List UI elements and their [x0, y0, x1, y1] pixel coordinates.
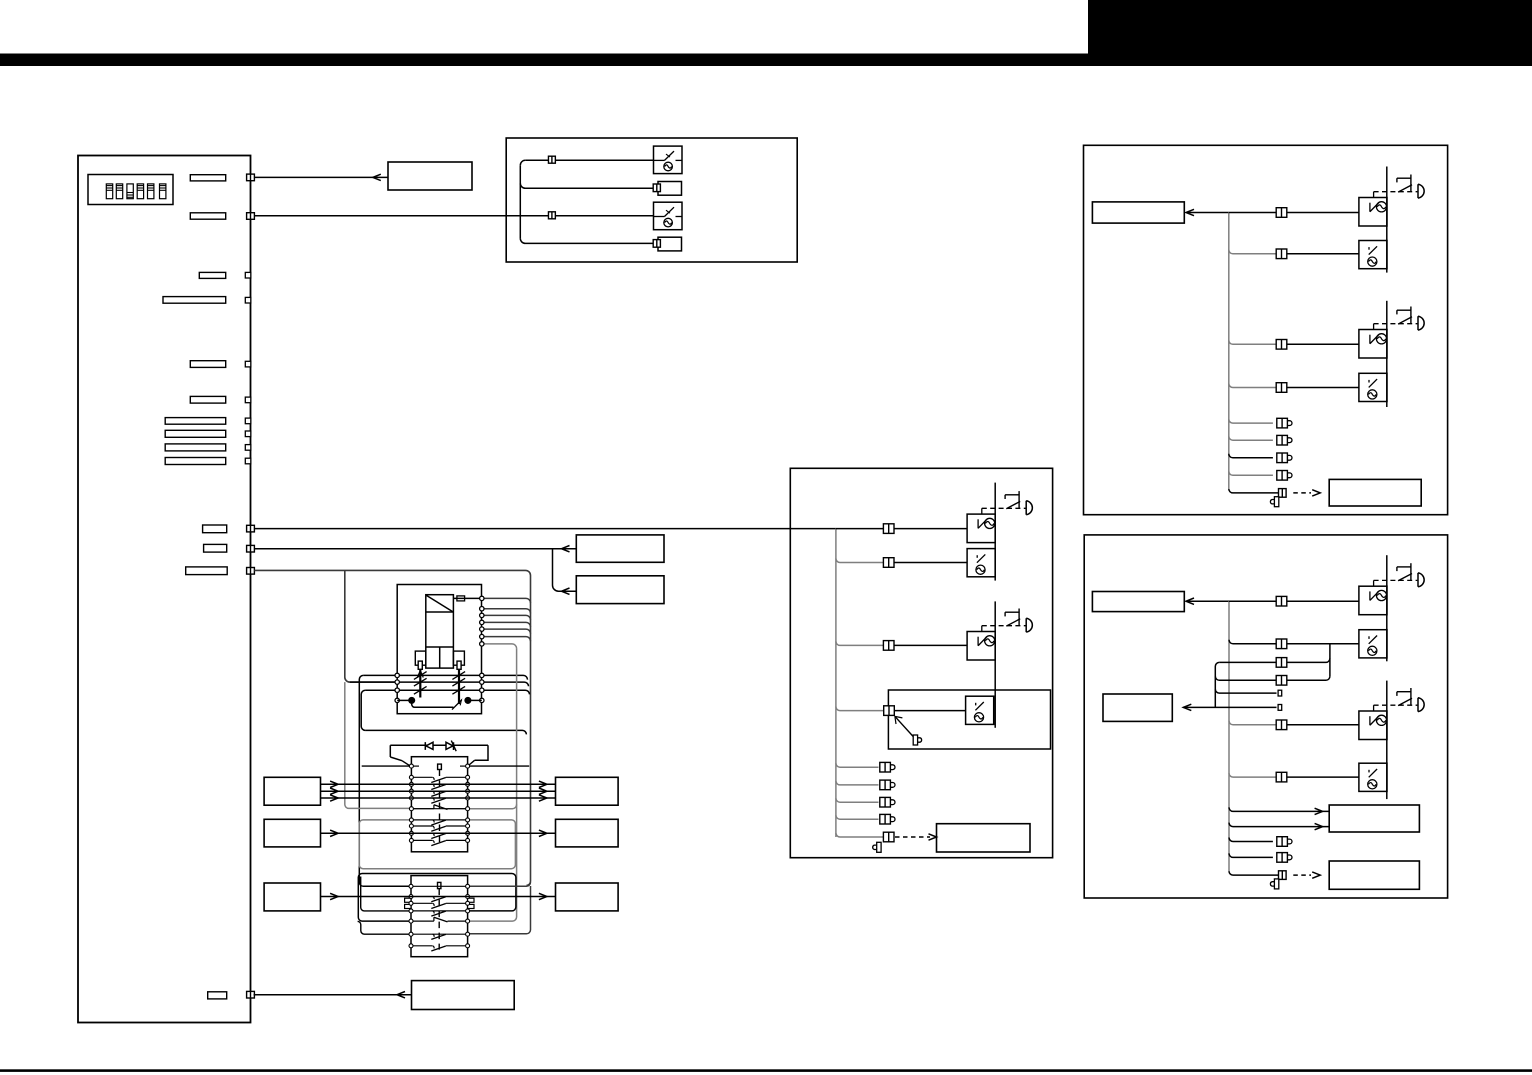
footer rule	[0, 1069, 1532, 1072]
bank1 row stubs top	[411, 765, 467, 767]
rb bus (gray)	[1228, 601, 1230, 871]
connector	[1276, 658, 1287, 668]
PCB edge pin 3	[245, 272, 251, 278]
DIP switch element 3	[127, 184, 133, 199]
capped connector stub	[880, 762, 895, 772]
diode feed diagonal right	[468, 760, 474, 765]
flow arrow	[330, 781, 338, 787]
PCB edge pin 6	[245, 397, 251, 403]
resistor on relay contact feed	[457, 596, 465, 601]
relay pin node left	[395, 698, 399, 702]
flow arrow	[562, 546, 570, 552]
rb branch1 wire	[1229, 600, 1359, 602]
loop row at 730	[365, 730, 526, 734]
PCB edge pin 13	[247, 568, 255, 575]
branch 4 wire	[520, 238, 658, 243]
compressor C4	[1359, 373, 1387, 401]
mid-right branch3 wire	[894, 644, 967, 646]
relay contact feed wire	[453, 597, 481, 599]
PCB connector bar 4	[163, 297, 226, 304]
relay coil terminal pin right	[457, 661, 461, 669]
thermal fuse F1	[658, 182, 682, 196]
door switch symbol	[1005, 609, 1020, 627]
PCB edge pin 2	[247, 213, 255, 220]
rt dashed branch	[1229, 489, 1279, 493]
callout label box (bottom)	[412, 981, 515, 1010]
program wire 2	[321, 790, 556, 792]
PCB edge pin 5	[245, 361, 251, 367]
wire pin1 to callout	[254, 176, 388, 178]
evap fan F1 with lamp	[1359, 586, 1387, 615]
diode loop line	[390, 745, 488, 760]
right-bottom callout label box 3	[1329, 805, 1419, 832]
relay coil terminal pin left	[418, 661, 422, 669]
lamp	[1418, 316, 1424, 330]
lamp	[1026, 618, 1032, 632]
evap fan F2	[1359, 630, 1387, 658]
gray loop: row 820 around bank bottom (row 868)	[359, 820, 515, 869]
door switch linkage (dashed)	[982, 626, 1026, 632]
bank1 switch contacts	[411, 777, 467, 845]
diode D1 (points left)	[425, 742, 433, 750]
lamp	[1418, 698, 1424, 712]
rt stub wire y440	[1229, 436, 1273, 440]
harness loop A vertical (gray)	[468, 648, 517, 921]
PCB connector bar 9	[165, 444, 226, 451]
row 910 left extension	[361, 877, 411, 911]
capped connector stub	[1277, 837, 1292, 847]
transfer blade	[452, 700, 462, 710]
bank2 contact nodes	[409, 884, 470, 948]
compressor C2	[1359, 241, 1387, 269]
capped connector stub	[1277, 418, 1292, 428]
door switch linkage (dashed)	[1374, 192, 1418, 198]
rb branch3 (gray feed)	[1229, 721, 1276, 725]
wire pin14 to callout	[254, 994, 412, 996]
row 934 left link	[358, 921, 411, 934]
service arrow to connector	[896, 717, 915, 737]
connector	[1276, 208, 1287, 218]
relay armature left pin line	[419, 669, 421, 697]
rt stub wire y475	[1229, 471, 1273, 475]
right-top callout label box	[1092, 202, 1184, 223]
PCB connector bar 8	[165, 430, 226, 437]
PCB edge pin 14	[247, 991, 255, 998]
left loop vertical from row3	[361, 690, 365, 730]
relay contact row 2	[350, 682, 529, 686]
door switch symbol	[1005, 491, 1020, 509]
relay output wires merging to harness	[482, 598, 531, 603]
DIP switch element 2	[116, 184, 122, 199]
disconnected plug	[1270, 497, 1278, 507]
bus vertical	[519, 165, 521, 238]
rb feed wire	[1187, 600, 1230, 602]
connector	[883, 832, 894, 842]
PCB connector bar 1	[190, 175, 225, 181]
callout label box right 1	[556, 777, 619, 805]
rt branch4 wire	[1287, 387, 1359, 389]
rt stub wire y457	[1229, 454, 1273, 458]
right-bottom unit enclosure	[1084, 535, 1447, 898]
capped connector stub	[880, 814, 895, 824]
rt group1 common	[1386, 167, 1388, 273]
mid-right callout label box	[937, 824, 1031, 852]
wire pin13 supply loop top	[254, 570, 530, 885]
group1 common line	[994, 483, 996, 581]
door switch symbol	[1397, 563, 1412, 581]
rb stub row 2 / wire to callout2	[1183, 706, 1276, 708]
relay enclosure box	[397, 585, 481, 714]
rb branch2b wire	[1219, 658, 1330, 662]
PCB connector bar 13	[186, 567, 228, 575]
capped connector stub	[1277, 453, 1292, 463]
evap fan F4	[1359, 763, 1387, 791]
lamp	[1418, 573, 1424, 587]
capped connector stub	[880, 780, 895, 790]
bank1 actuator dashed line	[439, 770, 441, 846]
branch 1 wire	[525, 159, 653, 161]
rb stub row 1	[1215, 689, 1276, 693]
callout label box left 2	[264, 819, 320, 847]
DIP switch element 4	[137, 184, 143, 199]
lamp	[1418, 184, 1424, 198]
connector pin	[1278, 705, 1282, 711]
relay pin node right	[480, 688, 484, 692]
heater/defrost unit enclosure	[506, 138, 797, 262]
rt branch2 (gray feed)	[1229, 250, 1276, 254]
program wire 1 exit arrow	[539, 781, 547, 787]
diode D2 slash	[451, 741, 456, 752]
thermal fuse F2	[658, 237, 682, 251]
callout label box (interior lamp 2)	[576, 576, 664, 604]
door switch linkage (dashed)	[1374, 324, 1418, 330]
bank2 actuator pin	[438, 882, 441, 888]
connector at F2	[653, 240, 660, 248]
service plug	[913, 735, 921, 745]
rt dashed callout label box	[1329, 479, 1421, 506]
transfer arrow	[455, 700, 461, 707]
rt branch3 wire	[1287, 343, 1359, 345]
DIP switch element 6	[160, 184, 166, 199]
rt stub wire y423	[1229, 419, 1273, 423]
connector	[883, 524, 894, 534]
mid-right stub wire y819	[836, 815, 879, 819]
relay contact node	[480, 596, 484, 600]
bank2 row1 line	[411, 885, 468, 887]
rt branch3 (gray feed)	[1229, 340, 1276, 344]
relay contact node	[480, 620, 484, 624]
flow arrow	[330, 788, 338, 794]
row 808 left (gray) from supply branch	[345, 682, 412, 808]
rt group2 common	[1386, 301, 1388, 407]
rb dashed branch	[1229, 871, 1279, 875]
PCB connector bar 12	[204, 544, 227, 552]
program wire 3 exit arrow	[539, 795, 547, 801]
relay blades right	[452, 672, 465, 680]
flow arrow	[1186, 598, 1194, 604]
connector	[1276, 249, 1287, 259]
rb group1 common	[1386, 555, 1388, 661]
heater H1	[966, 696, 994, 724]
callout label box (interior lamp 1)	[576, 535, 664, 562]
callout label box right 3	[556, 883, 619, 911]
PCB connector bar 10	[165, 458, 226, 465]
DIP switch element 1	[106, 184, 112, 199]
rb branch4 (gray feed)	[1229, 773, 1276, 777]
PCB connector bar 14	[208, 992, 227, 999]
relay contact row 3	[365, 690, 529, 694]
switch bank 1 body	[411, 757, 467, 852]
rb branch2c wire	[1215, 676, 1330, 680]
relay contact row 1	[363, 675, 527, 679]
capped connector stub	[880, 797, 895, 807]
PCB connector bar 3	[199, 272, 225, 278]
inline connector branch1	[548, 156, 555, 163]
capped connector stub	[1277, 435, 1292, 445]
relay contact node	[480, 634, 484, 638]
relay contact node	[480, 613, 484, 617]
relay coil body	[426, 595, 454, 668]
bank2 actuator dashed line	[438, 889, 440, 950]
bank1 contact nodes	[409, 764, 469, 842]
group2 common line	[994, 601, 996, 727]
fan motor M3 with lamp	[967, 632, 995, 661]
callout label box right 2	[556, 819, 619, 847]
relay common dots	[409, 698, 415, 704]
PCB edge pin 4	[245, 297, 251, 303]
right-top bus (gray)	[1228, 213, 1230, 489]
rb branch2 wire	[1229, 640, 1359, 644]
mid-right branch1 wire	[836, 528, 967, 530]
relay coil diagonal	[426, 595, 453, 612]
left loop vertical from row1	[359, 675, 411, 886]
bank1 actuator pin	[438, 764, 442, 769]
mid-right stub wire y802	[836, 798, 879, 802]
diode D2 (points right)	[446, 742, 454, 750]
door switch symbol	[1397, 307, 1412, 325]
PCB connector bar 2	[190, 213, 225, 219]
callout label box (top, power source)	[388, 162, 472, 190]
disconnected plug	[873, 842, 881, 852]
relay contact node	[480, 607, 484, 611]
PCB edge pin 1	[247, 174, 255, 181]
rb capped stub 2	[1229, 853, 1273, 857]
connector	[1276, 772, 1287, 782]
capped connector stub	[1277, 853, 1292, 863]
right-bottom callout label box 1	[1092, 592, 1184, 612]
bank1 rows 808/819 internal lines	[411, 809, 467, 820]
page header black block (top-right)	[1088, 0, 1532, 66]
door switch linkage (dashed)	[1374, 580, 1418, 586]
flow arrow	[397, 992, 405, 998]
wire pin2 to heater unit	[254, 215, 519, 217]
relay armature right pin line	[458, 669, 460, 704]
mid-right branch2 wire	[894, 562, 967, 564]
rt branch2 wire	[1287, 253, 1359, 255]
rb branch2 collector vertical	[1329, 644, 1331, 677]
right-top feed wire	[1187, 212, 1229, 214]
PCB connector bar 11	[203, 525, 227, 533]
relay pin node right	[480, 698, 484, 702]
relay transfer link	[412, 700, 454, 707]
PCB edge pin 11	[247, 525, 255, 532]
rb wire to callout3 a	[1229, 807, 1329, 811]
inline connector branch3	[548, 212, 555, 219]
relay pin node left	[395, 673, 399, 677]
rb sub-bus vertical	[1215, 662, 1219, 707]
PCB connector bar 7	[165, 418, 226, 425]
compressor C1 with lamp	[1359, 198, 1387, 227]
flow arrow into PCB	[373, 174, 381, 180]
branch 2 wire	[520, 183, 653, 188]
connector	[1276, 340, 1287, 350]
connector	[883, 558, 894, 568]
relay row4 left segment	[397, 699, 412, 701]
program wire 2 exit arrow	[539, 788, 547, 794]
callout label box left 1	[264, 777, 320, 805]
motor wire through bank1	[321, 832, 556, 834]
main control PCB box	[78, 156, 251, 1023]
pump wire through bank2	[321, 896, 556, 898]
relay base center line	[439, 647, 441, 668]
connector	[1279, 489, 1287, 498]
rt branch1 wire	[1229, 212, 1359, 214]
bank2 row 910 internal line	[411, 910, 468, 912]
rb group2 common	[1386, 681, 1388, 800]
dashed link to callout	[895, 836, 930, 838]
connector	[883, 641, 894, 651]
thermostat TH2	[654, 202, 683, 230]
callout label box left 3	[264, 883, 320, 911]
supply loop branch down-left	[345, 570, 397, 682]
PCB edge pin 10	[245, 458, 251, 464]
connector	[1279, 871, 1287, 880]
connector	[1276, 720, 1287, 730]
flow arrow	[562, 588, 570, 594]
DIP switch element 5	[148, 184, 154, 199]
program wire 3	[321, 797, 556, 799]
row 886 right to harness B	[468, 882, 531, 886]
compressor C3 with lamp	[1359, 330, 1387, 359]
thermostat TH1	[654, 146, 683, 174]
program wire 1	[321, 783, 556, 785]
relay output wire 7 to loop A	[482, 644, 517, 649]
door switch symbol	[1397, 688, 1412, 706]
bank2 side tabs	[405, 898, 474, 908]
rb branch4 wire	[1287, 776, 1359, 778]
PCB edge pin 8	[245, 431, 251, 437]
relay base tab left	[415, 651, 426, 665]
PCB edge pin 12	[247, 545, 255, 552]
wire pin12 to callout	[254, 548, 576, 550]
disconnected plug	[1270, 879, 1278, 889]
right-bottom dashed callout label box	[1329, 861, 1419, 889]
diode feed diagonal left	[402, 761, 410, 766]
mid-right branch4 wire	[894, 710, 966, 712]
relay base divider	[426, 646, 454, 648]
connector	[1276, 596, 1287, 606]
door switch linkage (dashed)	[982, 508, 1026, 514]
relay base tab right	[453, 651, 464, 665]
relay row4 right segment	[468, 699, 482, 701]
mid-right stub wire y767	[836, 763, 879, 767]
branch 3 wire	[506, 215, 653, 217]
header rule bar	[0, 54, 1532, 67]
fan motor M1 with lamp	[967, 514, 995, 543]
rb capped stub 1	[1229, 838, 1273, 842]
mid-right dashed branch wire	[836, 833, 884, 837]
black loop: row 873 arch over lower switch bank	[358, 874, 516, 922]
rt branch4 (gray feed)	[1229, 384, 1276, 388]
connector	[1276, 639, 1287, 649]
connector	[884, 706, 895, 716]
switch bank 2 body	[411, 876, 468, 957]
branch wire to callout 2	[553, 549, 577, 592]
lamp	[1026, 501, 1032, 515]
evap fan F3 with lamp	[1359, 711, 1387, 740]
harness B lower segment into row 934	[468, 886, 531, 934]
fan motor M2	[967, 549, 995, 577]
wire pin11 to fan unit bus	[254, 528, 836, 530]
bank2 switch contacts	[411, 897, 468, 952]
mid-right unit enclosure	[790, 468, 1052, 857]
relay contact node	[480, 642, 484, 646]
relay pin node left	[395, 688, 399, 692]
rb wire to callout3 b	[1229, 823, 1329, 827]
relay blades left	[414, 672, 427, 680]
right-top unit enclosure	[1084, 145, 1448, 514]
right-bottom callout label box 2	[1103, 694, 1172, 721]
harness loop A upper corner into row 808	[468, 805, 517, 809]
connector at F1	[653, 184, 660, 192]
armature arrow	[417, 671, 423, 678]
relay contact node	[480, 627, 484, 631]
door switch symbol	[1397, 175, 1412, 193]
bank1 row1 left extension	[362, 765, 412, 767]
relay pin node left	[395, 680, 399, 684]
bus corner top	[520, 160, 525, 165]
rb branch3 wire	[1287, 724, 1359, 726]
mid-right branch2 wire (gray feed)	[836, 559, 884, 563]
mid-right bus (gray)	[835, 529, 837, 837]
bank1 row1 right extension	[468, 765, 530, 767]
relay pin node right	[480, 673, 484, 677]
flow arrow	[1186, 209, 1194, 215]
PCB connector bar 6	[190, 396, 225, 403]
connector pin	[1278, 690, 1282, 696]
connector	[1276, 383, 1287, 393]
mid-right stub wire y784	[836, 781, 879, 785]
door switch linkage (dashed)	[1374, 705, 1418, 711]
connector	[1276, 676, 1287, 686]
PCB connector bar 5	[190, 361, 225, 368]
PCB edge pin 9	[245, 445, 251, 451]
PCB edge pin 7	[245, 418, 251, 424]
capped connector stub	[1277, 471, 1292, 481]
flow arrow	[330, 795, 338, 801]
flow arrow	[1183, 704, 1191, 710]
relay coil divider	[426, 611, 454, 613]
DIP switch block S1	[88, 175, 173, 205]
mid-right branch4 wire (gray feed)	[836, 707, 883, 711]
bank2 row 934 internal line	[411, 933, 468, 935]
service sub-box	[888, 690, 1050, 749]
mid-right branch3 wire (gray feed)	[836, 641, 884, 645]
relay pin node right	[480, 680, 484, 684]
